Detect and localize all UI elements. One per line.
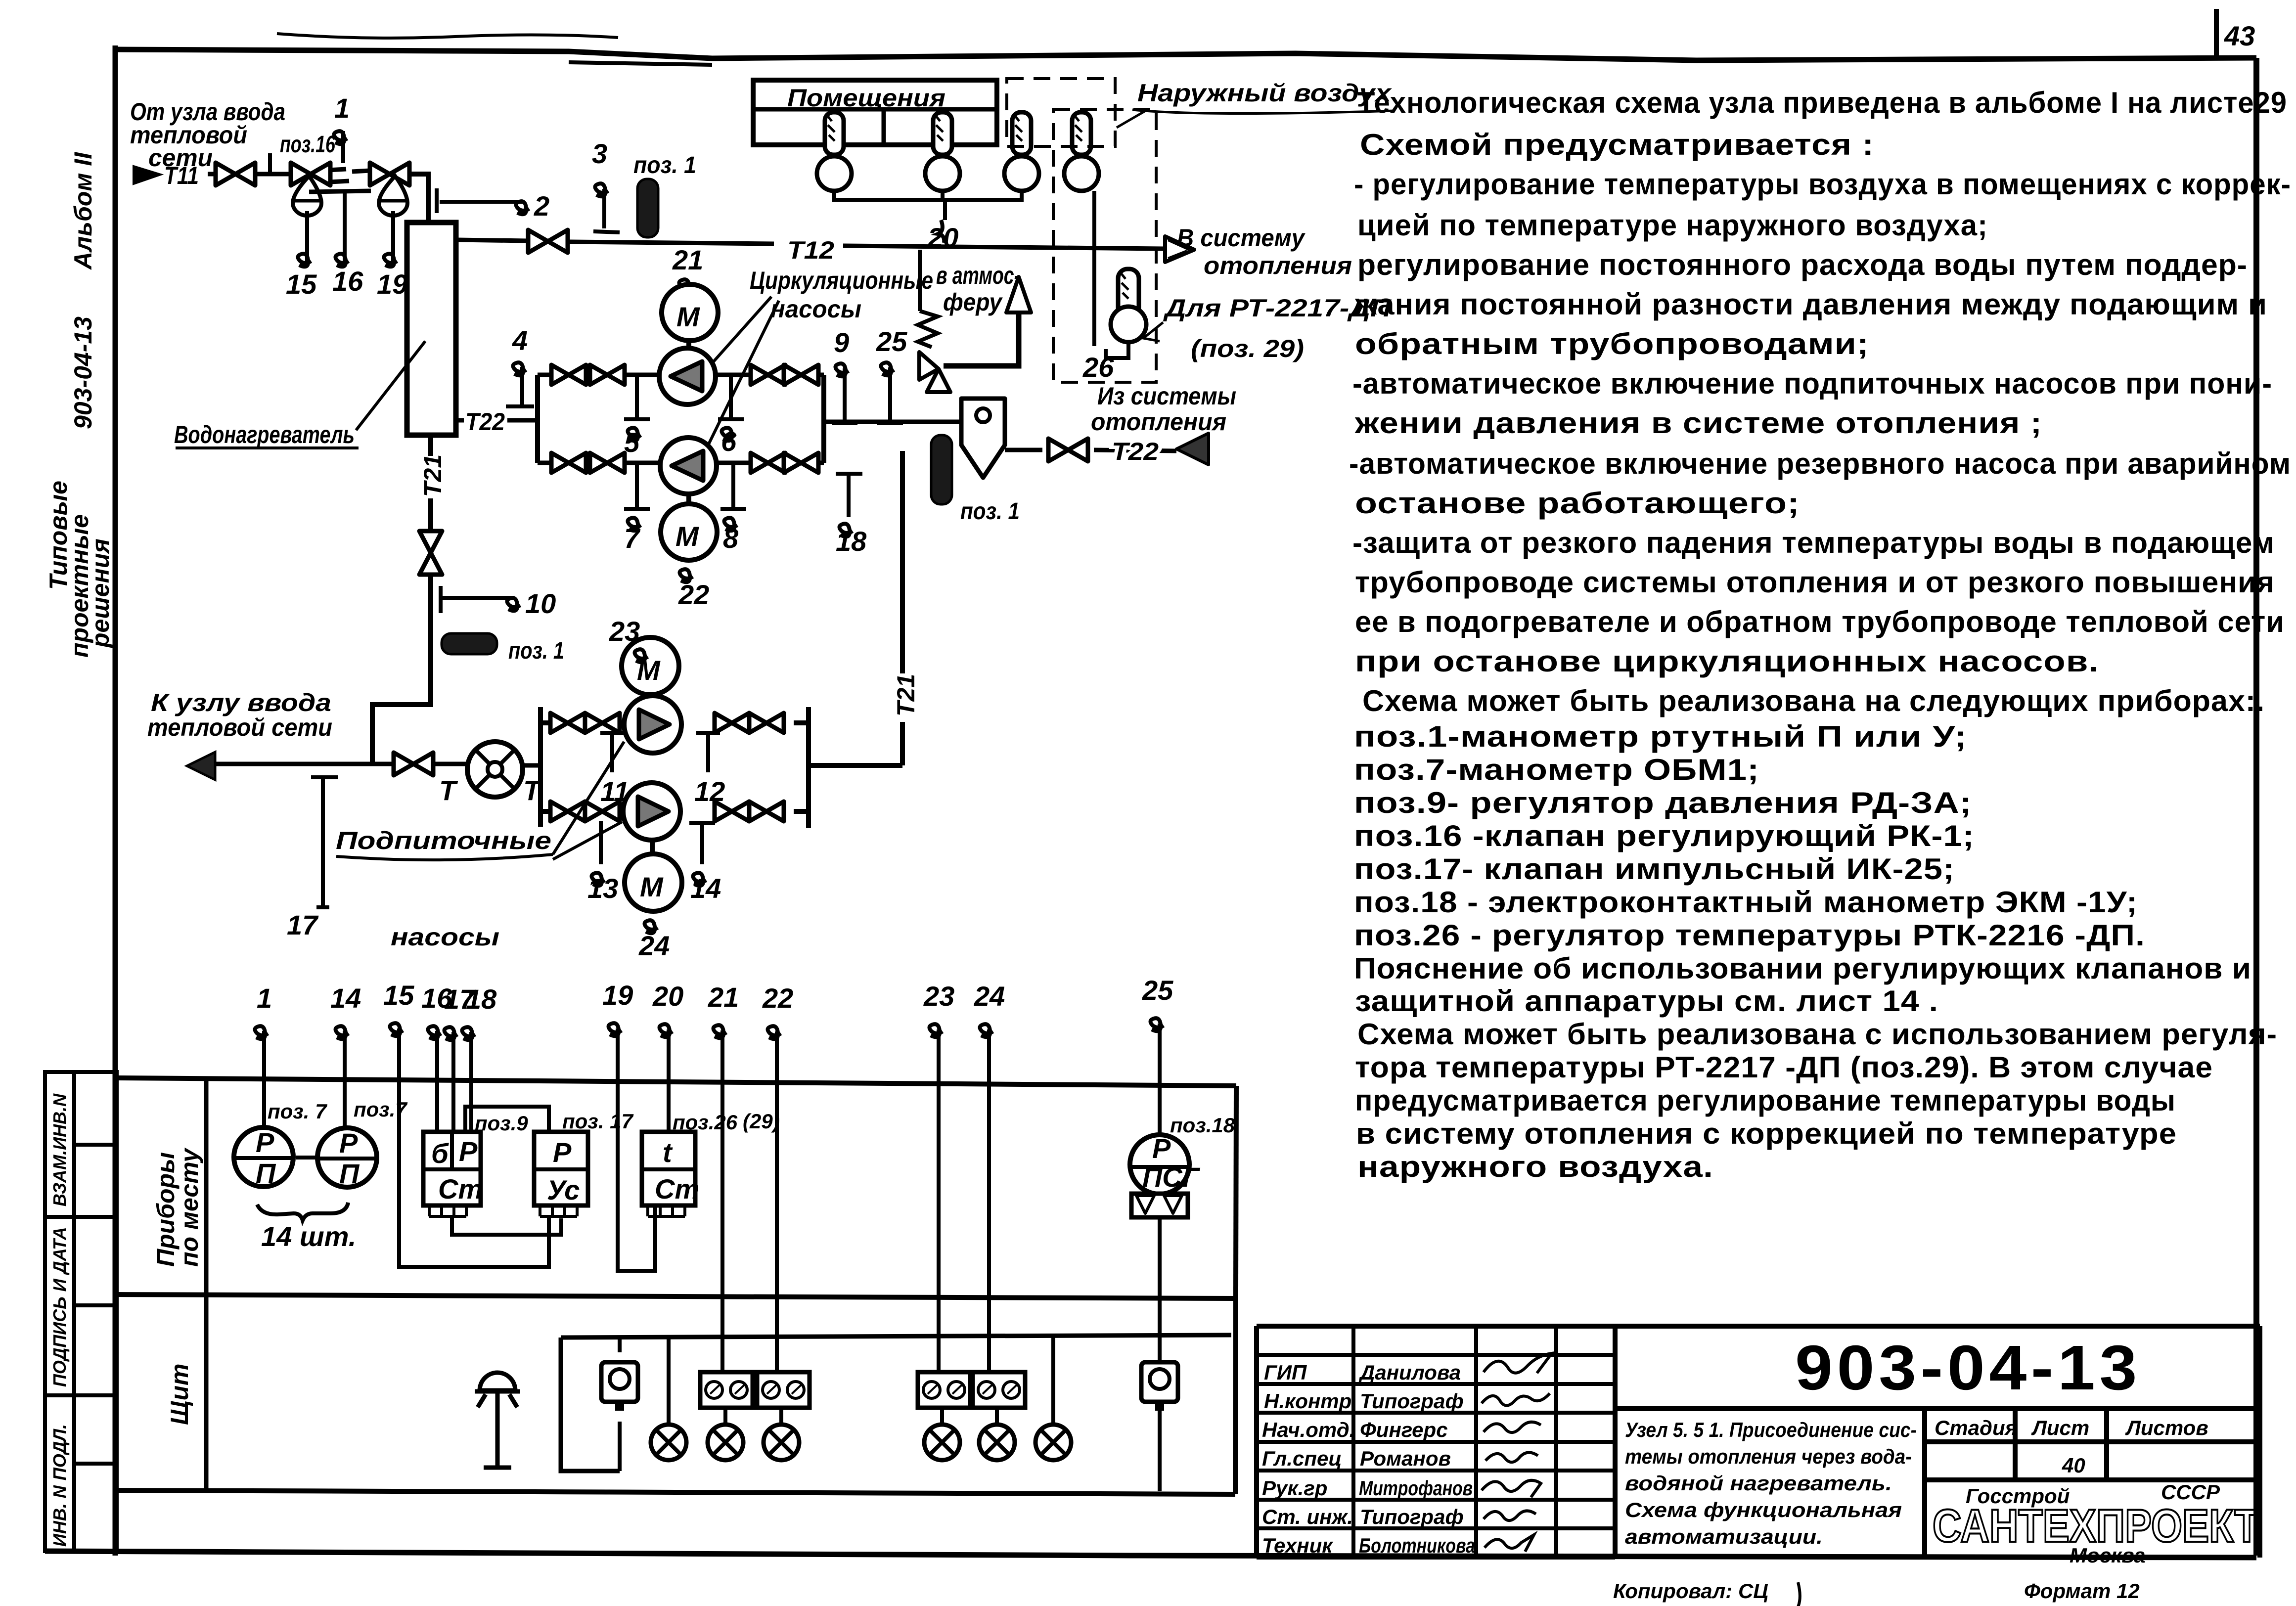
svg-text:18: 18 (836, 526, 867, 557)
wire pump motor 21 (687, 283, 691, 286)
lamp stem b (1051, 1336, 1055, 1424)
svg-text:поз.7-манометр ОБМ1;: поз.7-манометр ОБМ1; (1354, 753, 1759, 786)
svg-text:1: 1 (334, 92, 350, 124)
valve circ upper right b (784, 365, 818, 385)
block поз.9 bottom link (452, 1217, 561, 1235)
svg-text:Т21: Т21 (419, 454, 447, 497)
svg-text:Технологическая схема узла при: Технологическая схема узла приведена в а… (1357, 86, 2287, 119)
table right edge (1235, 1086, 1236, 1494)
svg-text:Узел 5. 5 1. Присоединение сис: Узел 5. 5 1. Присоединение сис- (1625, 1418, 1917, 1441)
svg-text:Романов: Романов (1360, 1447, 1451, 1470)
svg-text:поз.16 -клапан регулирующий: поз.16 -клапан регулирующий РК-1; (1354, 819, 1975, 852)
svg-text:ГИП: ГИП (1264, 1361, 1307, 1384)
svg-text:обратным трубопроводами;: обратным трубопроводами; (1355, 327, 1869, 360)
dashed box sensor column (1053, 109, 1156, 382)
mud trap (961, 399, 1005, 478)
svg-text:отопления: отопления (1204, 252, 1352, 279)
svg-text:2: 2 (534, 190, 549, 222)
signal rect 22 (757, 1372, 810, 1408)
svg-text:В систему: В систему (1177, 224, 1306, 252)
lamp 2 (723, 1408, 727, 1424)
svg-text:трубопроводе системы отопле: трубопроводе системы отопления и от резк… (1355, 566, 2275, 599)
button 2 (1141, 1362, 1178, 1411)
discharge header right (821, 375, 826, 463)
signal rect 24 (973, 1372, 1025, 1408)
svg-text:останове работающего;: останове работающего; (1355, 487, 1800, 520)
arrow T11 inlet (134, 166, 161, 184)
svg-text:поз.18 - электроконтактный ма: поз.18 - электроконтактный манометр ЭКМ … (1354, 886, 2138, 919)
motor M makeup 1 (622, 637, 679, 695)
svg-text:Ус: Ус (547, 1174, 580, 1205)
stem (650, 840, 655, 854)
stem (648, 695, 653, 696)
discharge line to return (824, 422, 968, 450)
lamp 5 (995, 1408, 999, 1424)
valve circ lower left a (551, 453, 586, 473)
svg-text:7: 7 (624, 523, 641, 554)
svg-text:Щит: Щит (166, 1364, 193, 1425)
svg-text:20: 20 (927, 222, 958, 253)
makeup header left (540, 707, 550, 827)
svg-text:Копировал: СЦ: Копировал: СЦ (1613, 1579, 1768, 1603)
jumper to поз.17 (465, 1107, 549, 1132)
svg-text:12: 12 (694, 776, 725, 807)
svg-text:Стадия: Стадия (1935, 1416, 2017, 1439)
svg-text:тепловой сети: тепловой сети (147, 714, 332, 741)
svg-text:Гл.спец: Гл.спец (1262, 1447, 1342, 1470)
svg-text:21: 21 (708, 981, 739, 1013)
svg-text:Т21: Т21 (892, 674, 920, 716)
svg-text:Нач.отд.: Нач.отд. (1262, 1418, 1355, 1441)
gauge circle 1 (234, 1127, 293, 1189)
indicator 24 (644, 920, 658, 933)
pipe T12 from heater (456, 240, 527, 241)
valve makeup upper right a (715, 713, 749, 733)
dashed box outside air top (1007, 79, 1115, 146)
table label divider (204, 1079, 209, 1492)
svg-text:9: 9 (834, 327, 849, 358)
wire 20 drop (943, 200, 947, 220)
elevator (467, 742, 523, 797)
underline подпиточные (336, 854, 553, 860)
return pipe from system (1005, 448, 1042, 452)
actuator diaphragm no2 (379, 176, 407, 216)
svg-text:24: 24 (638, 930, 670, 961)
indicator 12 (696, 733, 720, 772)
valve makeup lower right a (715, 802, 749, 821)
valve circ lower left b (590, 453, 625, 473)
svg-text:21: 21 (672, 244, 703, 275)
relief angle valve (919, 352, 950, 392)
svg-text:Типограф: Типограф (1360, 1505, 1464, 1528)
svg-text:в систему отопления с корре: в систему отопления с коррекцией по темп… (1356, 1117, 2177, 1150)
svg-text:-автоматическое включение по: -автоматическое включение подпиточных на… (1352, 367, 2272, 400)
riser T21 right lower (900, 722, 905, 765)
svg-text:5: 5 (624, 427, 640, 458)
svg-text:Типограф: Типограф (1360, 1389, 1464, 1413)
gauge ЭКМ поз.18 (1130, 1133, 1201, 1194)
valve circ upper left a (551, 365, 586, 385)
pipe T21 (428, 498, 433, 531)
leader наружный (1117, 110, 1147, 128)
thermometer return shaded (931, 435, 952, 504)
valve circ upper right a (751, 365, 785, 385)
svg-text:t: t (663, 1137, 673, 1168)
svg-text:Циркуляционные: Циркуляционные (750, 267, 933, 294)
leader pumps 1 (706, 297, 771, 370)
signature squiggles (1482, 1353, 1552, 1552)
svg-text:ВЗАМ.ИНВ.N: ВЗАМ.ИНВ.N (49, 1093, 70, 1206)
svg-text:М: М (676, 301, 700, 332)
svg-text:поз. 1: поз. 1 (508, 638, 564, 664)
indicator 11 (600, 733, 624, 772)
svg-text:Ст. инж.: Ст. инж. (1262, 1505, 1353, 1528)
wire sensor4 down (1092, 191, 1096, 346)
svg-text:Р: Р (256, 1127, 274, 1158)
frame border bottom (45, 1551, 2256, 1558)
wire (255, 172, 296, 177)
svg-text:поз.16: поз.16 (280, 132, 335, 158)
valve return (1048, 439, 1088, 461)
svg-text:16: 16 (332, 266, 363, 297)
indicator 8 (720, 465, 746, 509)
block поз.26 (642, 1132, 699, 1216)
valve circ lower right a (751, 453, 785, 473)
svg-text:К узлу ввода: К узлу ввода (151, 689, 331, 716)
svg-text:Р: Р (339, 1127, 358, 1159)
indicator 7 (624, 465, 650, 509)
table bottom line (115, 1490, 1235, 1494)
svg-text:при останове циркуляционных: при останове циркуляционных насосов. (1355, 645, 2099, 678)
motor M makeup 2 (625, 854, 682, 911)
lamp 1 (651, 1425, 686, 1460)
svg-text:поз.17- клапан импульсный ИК: поз.17- клапан импульсный ИК-25; (1354, 852, 1955, 886)
svg-text:Москва: Москва (2070, 1544, 2145, 1567)
svg-text:13: 13 (587, 873, 618, 904)
svg-text:П: П (256, 1158, 276, 1189)
frame border left (113, 45, 118, 1556)
svg-text:Схемой предусматривается :: Схемой предусматривается : (1360, 128, 1874, 161)
svg-text:поз. 1: поз. 1 (960, 498, 1020, 525)
sensor bus wire (834, 191, 1022, 200)
svg-text:Р: Р (459, 1136, 478, 1167)
motor M circ 1 (662, 284, 718, 341)
left bottom mini table (45, 1072, 117, 1551)
arrow to heat network (187, 752, 215, 780)
outside sensor bulb 4 (1064, 112, 1099, 191)
svg-text:предусматривается регулирова: предусматривается регулирование температ… (1355, 1084, 2176, 1117)
svg-text:15: 15 (383, 980, 414, 1011)
svg-text:43: 43 (2224, 20, 2255, 51)
svg-text:14 шт.: 14 шт. (261, 1221, 356, 1252)
svg-text:П: П (339, 1158, 360, 1189)
relief outlet pipe (944, 313, 1019, 366)
ПОМЕЩЕНИЯ box (753, 80, 997, 145)
svg-text:Ст: Ст (655, 1173, 699, 1204)
valve return main (394, 753, 433, 775)
return pipe to arrow (1094, 450, 1176, 451)
indicator line 15 (305, 211, 309, 261)
svg-text:Лист: Лист (2031, 1416, 2089, 1439)
leader pumps 2 (700, 301, 779, 462)
valve gate inlet (216, 163, 255, 185)
svg-text:Р: Р (1152, 1133, 1171, 1164)
lamp stem a (667, 1337, 671, 1424)
svg-text:Рук.гр: Рук.гр (1262, 1476, 1327, 1500)
valve regulating RK-1 no2 (370, 163, 409, 185)
svg-text:Митрофанов: Митрофанов (1359, 1476, 1473, 1500)
svg-text:24: 24 (974, 981, 1005, 1012)
svg-text:водяной нагреватель.: водяной нагреватель. (1625, 1472, 1892, 1495)
stem pump2 motor2 (686, 494, 691, 504)
svg-text:Ст: Ст (438, 1173, 483, 1204)
pipe T21 lower (372, 575, 431, 764)
indicator 13 (599, 821, 603, 864)
svg-text:3: 3 (592, 138, 607, 169)
indicator 22 (679, 569, 693, 582)
gauge circle 2 (317, 1127, 377, 1189)
svg-text:Пояснение об использовании р: Пояснение об использовании регулирующих … (1354, 952, 2251, 985)
table top line (115, 1078, 1236, 1086)
arrow to heating system (1165, 236, 1194, 262)
pipe T12 main cont (843, 246, 1165, 249)
button 1 (618, 1338, 622, 1352)
valve circ lower right b (784, 453, 818, 473)
svg-text:14: 14 (330, 982, 361, 1014)
brace 14 шт (257, 1203, 348, 1220)
return main pipe (215, 762, 392, 766)
pump makeup 1 (624, 696, 681, 753)
wire to heater riser (409, 174, 428, 223)
svg-text:б: б (431, 1138, 449, 1169)
svg-text:Схема может быть реализован: Схема может быть реализована с использов… (1357, 1018, 2277, 1051)
svg-text:ИНВ. N ПОДЛ.: ИНВ. N ПОДЛ. (49, 1424, 70, 1547)
indicator 2 impulse (437, 188, 523, 213)
svg-text:отопления: отопления (1091, 408, 1226, 436)
svg-text:22: 22 (762, 982, 793, 1014)
valve on T12 (528, 230, 568, 253)
svg-text:10: 10 (525, 588, 556, 619)
svg-text:19: 19 (377, 268, 407, 300)
upper branch pipe (538, 373, 824, 377)
lamp 4 (940, 1408, 944, 1424)
scan streak top (277, 34, 618, 38)
indicator 6 (718, 377, 744, 419)
svg-text:поз.1-манометр ртутный П или: поз.1-манометр ртутный П или У; (1354, 720, 1967, 753)
valve makeup upper left a (550, 713, 585, 733)
svg-text:18: 18 (466, 983, 497, 1015)
svg-text:защитной аппаратуры см. ли: защитной аппаратуры см. лист 14 . (1355, 984, 1938, 1018)
svg-text:наружного воздуха.: наружного воздуха. (1357, 1150, 1713, 1183)
valve makeup lower left a (550, 802, 585, 821)
valve regulating RK-1 no1 (291, 163, 330, 185)
svg-text:М: М (640, 871, 664, 902)
valve makeup upper left b (585, 713, 620, 733)
frame border top (115, 49, 2256, 60)
svg-text:6: 6 (721, 426, 737, 457)
svg-text:в атмос-: в атмос- (936, 262, 1020, 289)
pump makeup 2 (623, 783, 680, 840)
outside sensor bulb 3 (1004, 112, 1039, 191)
svg-text:поз.7: поз.7 (354, 1098, 407, 1121)
svg-text:Т22: Т22 (1112, 438, 1159, 465)
room sensor bulb 1 (817, 112, 852, 191)
svg-text:поз.9- регулятор давления РД: поз.9- регулятор давления РД-ЗА; (1354, 786, 1972, 819)
table row divider (115, 1294, 1235, 1298)
svg-text:Данилова: Данилова (1358, 1361, 1461, 1384)
signal rect 21 (700, 1372, 753, 1408)
pump circ 2 (660, 438, 717, 494)
indicator line 1 top (341, 131, 345, 163)
svg-text:поз. 1: поз. 1 (633, 152, 696, 178)
lower sensor bulb поз.26 (1111, 269, 1146, 342)
wire pipe T11 (208, 172, 214, 177)
pipe elevator to header (523, 763, 540, 768)
motor M circ 2 (661, 504, 717, 560)
page number tick line (2214, 9, 2219, 58)
pipe T12 main (569, 242, 774, 244)
svg-text:17: 17 (287, 909, 319, 940)
svg-text:Т: Т (439, 775, 458, 806)
svg-text:(29): (29) (743, 1110, 780, 1133)
svg-text:25: 25 (1142, 975, 1173, 1006)
svg-text:Схема функциональная: Схема функциональная (1625, 1498, 1902, 1521)
leader РТ-2217 (1143, 322, 1163, 341)
svg-text:М: М (675, 521, 699, 552)
svg-text:регулирование постоянного ра: регулирование постоянного расхода воды п… (1357, 248, 2248, 281)
lower branch pipe (538, 461, 824, 465)
svg-text:насосы: насосы (770, 295, 861, 323)
room sensor bulb 2 (925, 112, 960, 191)
indicator 14 (689, 821, 715, 864)
valve T21 vertical (419, 531, 442, 575)
suction header left (535, 375, 540, 463)
svg-text:Болотникова: Болотникова (1359, 1534, 1475, 1557)
signal rect 23 (918, 1372, 970, 1408)
svg-text:(поз. 29): (поз. 29) (1191, 335, 1304, 362)
pipe heater bottom stub (428, 435, 433, 456)
svg-text:14: 14 (690, 873, 721, 904)
svg-text:903-04-13: 903-04-13 (1795, 1333, 2141, 1403)
svg-text:8: 8 (723, 523, 739, 554)
svg-text:тора температуры РТ-2217 -ДП: тора температуры РТ-2217 -ДП (поз.29). В… (1355, 1051, 2213, 1084)
impulse to relief (918, 250, 922, 311)
svg-text:23: 23 (923, 981, 954, 1012)
svg-text:-автоматическое включение ре: -автоматическое включение резервного нас… (1349, 447, 2291, 480)
indicator 10 (441, 586, 514, 613)
svg-text:Т22: Т22 (465, 408, 505, 436)
orifice flanged section (328, 169, 370, 182)
impulse tick поз.16 (268, 153, 272, 174)
wire ЭКМ down (1158, 1217, 1162, 1491)
lamp 3 (779, 1408, 783, 1424)
svg-text:Листов: Листов (2125, 1416, 2208, 1439)
svg-text:- регулирование температуры: - регулирование температуры воздуха в по… (1354, 168, 2291, 201)
leader heater label (356, 341, 425, 430)
indicator line 16 (343, 192, 347, 261)
bell (475, 1373, 520, 1468)
svg-text:по месту: по месту (176, 1148, 203, 1267)
relief spring zigzag (918, 311, 938, 347)
lamp bus (561, 1335, 1231, 1338)
svg-text:решения: решения (87, 538, 114, 649)
svg-text:Из системы: Из системы (1097, 382, 1236, 410)
indicator 5 (624, 377, 650, 419)
pipe to header (507, 418, 538, 423)
wire lower sensor (1106, 342, 1128, 358)
indicator line 19 (391, 211, 395, 261)
ЭКМ contact box (1131, 1194, 1188, 1217)
svg-text:11: 11 (600, 776, 629, 807)
svg-text:Формат 12: Формат 12 (2024, 1579, 2140, 1603)
svg-text:4: 4 (512, 325, 528, 356)
svg-text:ПСГ: ПСГ (1142, 1161, 1201, 1193)
svg-text:23: 23 (609, 616, 640, 647)
svg-text:темы отопления через вода-: темы отопления через вода- (1625, 1445, 1912, 1468)
indicator 18 (836, 474, 862, 517)
arrow to atmosphere (1006, 277, 1031, 312)
leader makeup 1 (553, 742, 624, 854)
svg-text:поз. 7: поз. 7 (268, 1100, 327, 1123)
signature table lines (1257, 1326, 1615, 1558)
svg-text:Фингерс: Фингерс (1360, 1418, 1448, 1441)
makeup header right (794, 707, 902, 828)
svg-text:насосы: насосы (391, 923, 499, 951)
lamp 6 (1035, 1425, 1071, 1460)
svg-text:жания постоянной разности д: жания постоянной разности давления между… (1354, 288, 2267, 321)
svg-text:1: 1 (257, 982, 272, 1014)
thermometer поз.1 shaded horizontal (442, 633, 497, 654)
svg-text:Помещения: Помещения (787, 84, 945, 112)
riser T21 right (900, 451, 905, 673)
svg-text:Т11: Т11 (164, 162, 199, 189)
svg-text:ПОДПИСЬ И ДАТА: ПОДПИСЬ И ДАТА (49, 1227, 70, 1387)
pipe (434, 762, 467, 766)
svg-text:19: 19 (602, 980, 633, 1011)
svg-text:20: 20 (652, 981, 683, 1012)
frame border top double stroke (569, 62, 712, 65)
svg-text:26: 26 (1082, 352, 1114, 383)
svg-text:ее в подогревателе и обратн: ее в подогревателе и обратном трубопрово… (1355, 605, 2285, 638)
arrow from heating system (1176, 433, 1209, 465)
valve makeup lower right b (749, 802, 784, 821)
valve makeup upper right b (749, 713, 784, 733)
svg-text:Подпиточные: Подпиточные (336, 827, 551, 854)
title block outer (1257, 1326, 2260, 1558)
svg-text:25: 25 (876, 326, 907, 357)
svg-text:феру: феру (943, 288, 1003, 316)
water heater vessel (407, 223, 456, 435)
svg-text:Р: Р (553, 1137, 572, 1168)
stem motor1 pump1 (686, 341, 691, 348)
block поз.9 (423, 1132, 483, 1216)
leader makeup 2 (553, 822, 622, 859)
svg-text:22: 22 (678, 579, 709, 610)
actuator diaphragm no1 (293, 176, 321, 216)
svg-text:цией по температуре наружног: цией по температуре наружного воздуха; (1357, 209, 1988, 242)
block поз.17 (534, 1132, 588, 1216)
pipe T22 heater bottom label (456, 418, 464, 423)
valve makeup lower left b (585, 802, 620, 821)
svg-text:Водонагреватель: Водонагреватель (174, 421, 355, 448)
svg-text:поз.18: поз.18 (1170, 1114, 1235, 1137)
svg-text:-защита от резкого падения: -защита от резкого падения температуры в… (1352, 526, 2275, 559)
thermometer shaded top (637, 179, 658, 237)
svg-text:Схема может быть реализована: Схема может быть реализована на следующи… (1362, 684, 2265, 717)
svg-text:40: 40 (2062, 1454, 2085, 1477)
svg-text:Наружный воздух: Наружный воздух (1137, 79, 1393, 107)
svg-text:Н.контр: Н.контр (1264, 1389, 1351, 1413)
